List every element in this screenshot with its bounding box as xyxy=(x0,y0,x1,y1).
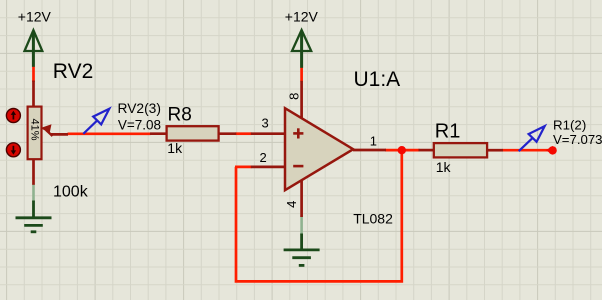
svg-text:V=7.073: V=7.073 xyxy=(553,132,602,147)
wire R8 to pin 3 xyxy=(236,132,252,135)
pot adjust button up xyxy=(6,109,20,123)
svg-text:41%: 41% xyxy=(29,118,41,140)
svg-text:1k: 1k xyxy=(167,140,183,156)
svg-text:RV2: RV2 xyxy=(53,60,93,83)
svg-text:R1: R1 xyxy=(435,121,461,143)
wire R1 to probe terminal xyxy=(503,149,553,152)
svg-text:100k: 100k xyxy=(53,184,89,201)
svg-text:V=7.08: V=7.08 xyxy=(118,117,161,132)
resistor R1 xyxy=(419,143,504,157)
wire +12V left to RV2 xyxy=(32,67,35,83)
voltage probe RV2(3) xyxy=(83,109,109,134)
ground under RV2 xyxy=(16,201,52,232)
voltage probe R1(2) xyxy=(519,126,545,151)
wire RV2 wiper to R8 xyxy=(68,132,151,135)
svg-text:1: 1 xyxy=(370,134,377,149)
node junction at output xyxy=(398,146,406,154)
svg-text:+12V: +12V xyxy=(285,8,319,24)
svg-text:R1(2): R1(2) xyxy=(553,117,586,132)
power +12V symbol left xyxy=(25,30,43,67)
wire +12V center to pin 8 xyxy=(300,68,303,82)
power +12V symbol center xyxy=(292,30,311,68)
svg-text:TL082: TL082 xyxy=(353,210,393,226)
resistor R8 xyxy=(150,126,236,140)
svg-text:8: 8 xyxy=(287,93,302,100)
svg-text:R8: R8 xyxy=(168,104,192,125)
pot adjust button down xyxy=(6,143,20,157)
op-amp U1:A xyxy=(251,81,386,217)
wire output to junction xyxy=(385,149,420,152)
svg-text:4: 4 xyxy=(284,201,299,208)
svg-text:U1:A: U1:A xyxy=(354,68,401,91)
svg-text:3: 3 xyxy=(262,116,269,131)
wire feedback loop xyxy=(236,151,402,281)
svg-text:RV2(3): RV2(3) xyxy=(118,101,161,116)
svg-text:1k: 1k xyxy=(436,159,452,175)
node probe terminal dot xyxy=(548,146,556,154)
svg-text:+12V: +12V xyxy=(18,8,52,24)
wire RV2 to ground (0V green) xyxy=(32,184,35,203)
wire pin 4 to ground (0V green) xyxy=(300,216,303,236)
svg-text:2: 2 xyxy=(260,150,267,165)
potentiometer RV2 xyxy=(28,81,68,185)
wire feedback to pin 2 xyxy=(235,166,252,169)
ground under op-amp xyxy=(284,234,320,266)
